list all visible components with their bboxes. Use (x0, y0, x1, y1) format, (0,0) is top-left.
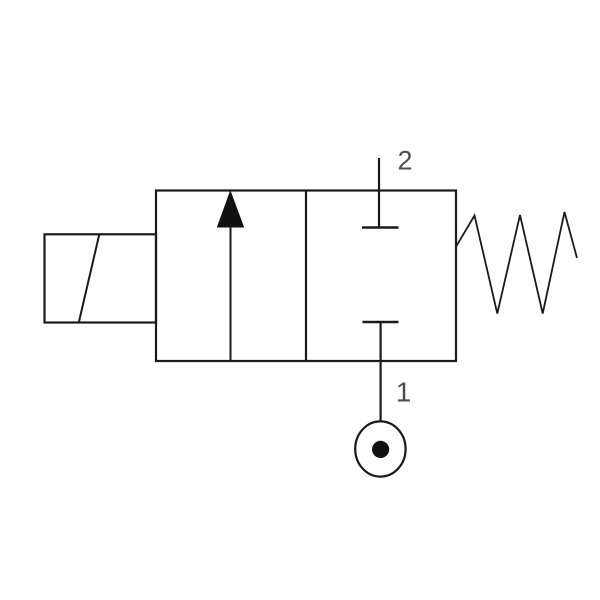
flow arrow head (218, 192, 244, 228)
port 1 blocked T-bar (363, 321, 399, 324)
port 1 stub line (380, 322, 382, 422)
drain/port symbol outer circle (355, 421, 405, 476)
valve body center divider (305, 191, 307, 362)
return spring (456, 212, 577, 314)
drain/port symbol center dot (372, 441, 389, 458)
svg-text:2: 2 (397, 146, 412, 176)
valve body outer box (156, 191, 456, 362)
solenoid diagonal stroke (79, 234, 100, 322)
port 2 blocked T-bar (362, 226, 399, 229)
svg-text:1: 1 (396, 377, 412, 408)
flow arrow stem (230, 222, 232, 361)
solenoid actuator box (45, 234, 157, 322)
port 2 stub line (378, 158, 380, 228)
